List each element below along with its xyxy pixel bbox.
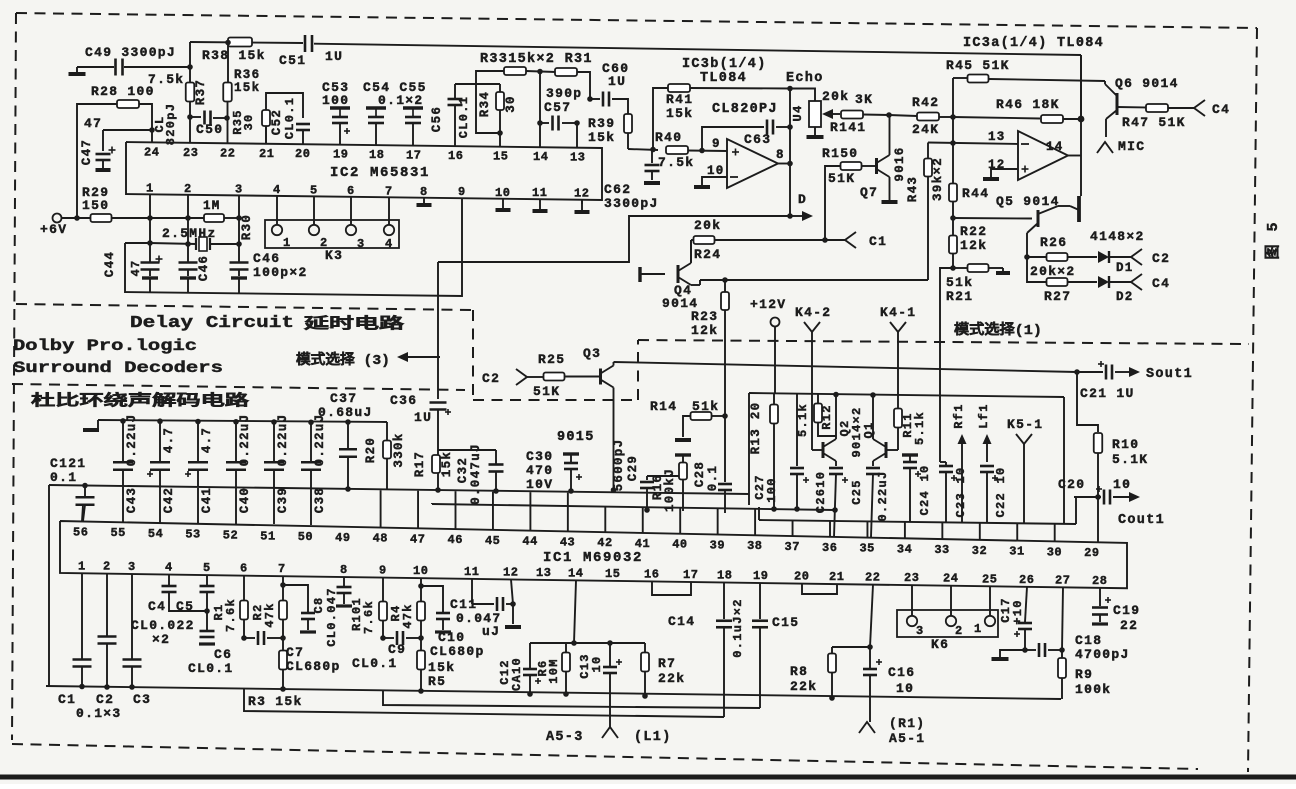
resistor R7 xyxy=(641,643,649,699)
label R23 12k xyxy=(691,309,718,338)
wire top rail R38-C51 segment xyxy=(190,42,303,43)
svg-text:1: 1 xyxy=(283,236,292,250)
resistor R17 xyxy=(432,455,440,473)
resistor R9 xyxy=(1058,650,1066,699)
label R3 15k xyxy=(248,694,303,709)
label Q5 9014 xyxy=(996,194,1060,209)
svg-text:13: 13 xyxy=(988,130,1006,144)
svg-text:C25: C25 xyxy=(850,479,864,505)
svg-text:26: 26 xyxy=(1019,573,1034,587)
label 杜比环绕声解码电路 xyxy=(31,391,251,410)
label R44 xyxy=(962,186,989,201)
label C6 CL0.1 xyxy=(188,647,234,676)
label C44 rotated xyxy=(103,251,117,277)
svg-text:C22 10: C22 10 xyxy=(994,466,1008,517)
svg-text:22: 22 xyxy=(865,571,880,585)
svg-text:100: 100 xyxy=(322,93,349,108)
label +6V xyxy=(40,222,67,237)
wire C29-R16 loop xyxy=(647,475,683,477)
wire IC3a output xyxy=(1068,155,1081,157)
resistor R14 xyxy=(691,412,726,420)
connector Lf1 arrow xyxy=(983,434,992,462)
svg-text:IC1 M69032: IC1 M69032 xyxy=(543,550,643,566)
wire R36 top from rail xyxy=(225,40,231,83)
label C4 (top) xyxy=(1212,102,1230,117)
wire Q5 base row xyxy=(953,217,1032,220)
pot U4 ground xyxy=(807,127,824,137)
svg-text:MIC: MIC xyxy=(1118,139,1145,154)
title 延时电路 xyxy=(302,314,405,333)
svg-text:1U: 1U xyxy=(414,410,432,425)
label R1 rotated xyxy=(212,603,226,620)
svg-text:56: 56 xyxy=(73,525,88,539)
svg-text:12k: 12k xyxy=(691,323,718,338)
capacitor C60 xyxy=(603,92,609,107)
capacitor C15 xyxy=(752,583,768,708)
capacitor C55 xyxy=(403,108,423,146)
svg-text:16: 16 xyxy=(448,149,463,163)
capacitor C13 polar xyxy=(603,643,622,727)
label R20 rotated xyxy=(364,437,378,463)
svg-text:0.22uJ: 0.22uJ xyxy=(876,470,890,521)
wire R21 column to C23 xyxy=(940,461,946,463)
label C63 xyxy=(744,132,771,147)
svg-text:34: 34 xyxy=(897,542,912,556)
svg-text:0.22uJ: 0.22uJ xyxy=(238,414,252,467)
resistor R4 xyxy=(417,578,425,650)
label 0.1uJx2 rotated xyxy=(731,598,745,658)
svg-text:150: 150 xyxy=(82,198,109,213)
label C25 rotated xyxy=(850,479,864,505)
IC2 pin13 wire down xyxy=(581,200,583,204)
label Q1 rotated xyxy=(862,421,876,438)
label 47k rotated (R2) xyxy=(263,602,277,628)
wire Q3 collector rail xyxy=(614,362,1080,375)
svg-text:18: 18 xyxy=(717,569,732,583)
capacitor C56 xyxy=(448,84,463,146)
label 47 rotated (C44) xyxy=(129,259,143,276)
svg-text:10: 10 xyxy=(1113,477,1131,492)
diode D1 xyxy=(1068,251,1131,263)
IC2 pin12 ground xyxy=(575,200,590,212)
label CL 820pJ rotated xyxy=(153,103,178,146)
resistor R13 xyxy=(770,394,778,512)
label 9 pin xyxy=(712,137,721,151)
wire pin29 column xyxy=(1097,497,1099,542)
svg-text:15k: 15k xyxy=(588,130,615,145)
wire rail B xyxy=(49,485,749,494)
label 0.1x3 xyxy=(76,706,122,721)
wire IC3a feedback column xyxy=(1080,55,1082,196)
capacitor C12 polar xyxy=(523,643,541,697)
wire rail C xyxy=(432,504,834,510)
label 10 rotated (C13) xyxy=(590,655,604,672)
wire +12V column xyxy=(774,326,776,394)
label C21 1U xyxy=(1080,386,1135,401)
svg-text:TL084: TL084 xyxy=(700,71,747,86)
label R13 20 rotated xyxy=(749,402,763,455)
svg-text:C1: C1 xyxy=(869,234,887,249)
wire R150 left elbow xyxy=(825,166,840,240)
transistor Q3 xyxy=(583,346,614,388)
svg-text:R37: R37 xyxy=(194,79,208,105)
label 10M rotated xyxy=(547,658,561,684)
svg-text:2: 2 xyxy=(184,182,192,196)
wire pin14 node row xyxy=(530,640,645,646)
svg-text:27: 27 xyxy=(1055,573,1070,587)
connector K5-1 xyxy=(1007,417,1043,444)
wire rail D xyxy=(759,520,1076,524)
svg-text:5.1k: 5.1k xyxy=(913,411,927,445)
svg-text:C3: C3 xyxy=(133,692,151,707)
svg-text:C4: C4 xyxy=(1212,102,1230,117)
svg-text:1: 1 xyxy=(974,622,983,636)
label 0.22uJ rotated (C25) xyxy=(876,470,890,521)
svg-text:CL0.1: CL0.1 xyxy=(283,97,297,140)
capacitor C11 xyxy=(497,597,503,611)
wire Q1 base from R11 xyxy=(886,449,898,451)
svg-text:0.1: 0.1 xyxy=(50,470,77,485)
svg-text:3300pJ: 3300pJ xyxy=(604,196,659,211)
capacitor C14 xyxy=(716,582,732,717)
outer dashed border top xyxy=(16,13,1257,28)
label C20 10 xyxy=(1058,477,1131,492)
label 15k R5 xyxy=(428,660,455,689)
svg-text:47k: 47k xyxy=(263,602,277,628)
wire R42 to node xyxy=(939,114,956,120)
svg-text:10: 10 xyxy=(413,564,428,578)
svg-text:R20: R20 xyxy=(364,437,378,463)
label R9 100k xyxy=(1075,667,1111,697)
label CL0.1 rotated (C56) xyxy=(457,96,471,139)
resistor R22 xyxy=(949,218,957,271)
svg-text:R39: R39 xyxy=(588,116,615,131)
resistor R39 xyxy=(624,114,632,149)
svg-text:51k: 51k xyxy=(692,399,719,414)
label R46 18K xyxy=(996,97,1060,112)
label C17 rotated xyxy=(999,597,1013,623)
wire R33-R31 xyxy=(526,69,556,75)
svg-text:R34: R34 xyxy=(478,91,492,117)
svg-text:30: 30 xyxy=(242,113,256,130)
capacitor C37 xyxy=(339,419,357,492)
svg-text:1M: 1M xyxy=(203,199,221,213)
svg-text:11: 11 xyxy=(532,186,547,200)
svg-text:20k: 20k xyxy=(694,218,721,233)
wire C60 to R39 xyxy=(612,99,628,114)
wire echo column xyxy=(789,89,791,217)
label 2.5MHz xyxy=(162,226,217,241)
svg-text:36: 36 xyxy=(822,541,837,555)
capacitor C54 xyxy=(366,108,386,145)
label R42 xyxy=(912,95,939,110)
svg-text:R3 15k: R3 15k xyxy=(248,694,303,709)
label C14 xyxy=(668,614,695,629)
capacitor C25 polar xyxy=(866,468,880,537)
mode-select(1) dashed separator xyxy=(638,340,1249,344)
svg-text:100: 100 xyxy=(765,477,779,503)
op-amp output 8 xyxy=(776,148,793,166)
label R35 30 rotated xyxy=(231,109,256,135)
svg-text:24: 24 xyxy=(943,572,958,586)
svg-text:C40: C40 xyxy=(238,487,252,513)
label 0.1x2 xyxy=(378,93,424,108)
svg-text:29: 29 xyxy=(1084,546,1099,560)
label C47 rotated xyxy=(80,139,94,165)
capacitor C16 polar xyxy=(863,647,882,722)
label R150 xyxy=(822,146,858,161)
svg-text:CL0.022: CL0.022 xyxy=(131,618,195,633)
+12V terminal xyxy=(750,297,786,327)
label C8 rotated xyxy=(312,596,326,613)
svg-text:7.6k: 7.6k xyxy=(224,598,238,632)
svg-text:1: 1 xyxy=(78,559,86,573)
label C18 4700pJ xyxy=(1075,633,1130,662)
title Dolby Pro.logic xyxy=(13,337,197,355)
svg-text:23: 23 xyxy=(183,146,198,160)
svg-text:11: 11 xyxy=(464,565,479,579)
svg-text:C46: C46 xyxy=(197,255,211,281)
capacitor C27 polar xyxy=(790,394,809,512)
label R2 rotated xyxy=(251,603,265,620)
+6V terminal xyxy=(53,214,62,223)
label C49 3300pJ xyxy=(85,45,176,60)
resistor R25 xyxy=(544,373,565,381)
wire pin12 ground col xyxy=(505,579,521,627)
svg-text:C39: C39 xyxy=(276,487,290,513)
svg-text:20: 20 xyxy=(295,147,310,161)
svg-text:C18: C18 xyxy=(1075,633,1102,648)
label 10 pin xyxy=(707,164,725,178)
label R33 15kx2 R31 xyxy=(480,52,593,67)
capacitor C53 xyxy=(330,108,350,145)
svg-text:17: 17 xyxy=(683,568,698,582)
svg-text:9015: 9015 xyxy=(557,430,595,445)
resistor R101 xyxy=(379,578,387,641)
label Q7 xyxy=(860,185,878,200)
label 5.1k rotated (R12) xyxy=(796,403,810,437)
wire C60 row xyxy=(590,98,600,100)
svg-text:16: 16 xyxy=(644,567,659,581)
svg-text:R8: R8 xyxy=(790,664,808,679)
svg-text:R24: R24 xyxy=(694,247,721,262)
resistor R5 xyxy=(417,651,425,694)
label C28 rotated xyxy=(693,461,707,487)
wire Q5 collector bar xyxy=(1058,196,1079,222)
label CL0.047 rotated xyxy=(325,587,339,647)
wire C20 row xyxy=(1074,496,1101,498)
svg-text:C2: C2 xyxy=(1152,251,1170,266)
label D2 xyxy=(1116,290,1134,304)
svg-text:21: 21 xyxy=(259,147,274,161)
resistor R33 xyxy=(504,67,526,75)
svg-text:14: 14 xyxy=(533,150,548,164)
svg-text:C37: C37 xyxy=(330,391,357,406)
label IC3a (1/4) TL084 xyxy=(963,36,1104,51)
svg-text:C7: C7 xyxy=(286,645,304,660)
capacitors C43 C42 C41 C40 C39 C38 xyxy=(113,418,321,525)
svg-text:22: 22 xyxy=(220,146,235,160)
label C4 (diode row) xyxy=(1152,276,1170,291)
label C29 rotated xyxy=(626,455,640,481)
resistor R21 xyxy=(953,264,1003,272)
label 13 pin xyxy=(988,130,1006,144)
svg-text:10: 10 xyxy=(707,164,725,178)
svg-text:10: 10 xyxy=(896,681,914,696)
capacitor C22 polar xyxy=(980,466,998,523)
label 390p C57 xyxy=(544,86,582,115)
wire C50 right xyxy=(213,115,230,121)
wire C52 lower xyxy=(265,126,267,144)
svg-text:C44: C44 xyxy=(103,251,117,277)
wire C63 loop left xyxy=(702,127,764,151)
svg-text:IC2 M65831: IC2 M65831 xyxy=(330,165,430,181)
svg-text:6: 6 xyxy=(347,184,355,198)
svg-text:4: 4 xyxy=(165,561,173,575)
label R25 xyxy=(538,352,565,367)
resistor 1M xyxy=(204,214,224,222)
label R47 51K xyxy=(1122,115,1186,130)
wire C49 right to node xyxy=(124,64,193,70)
label CL0.022 x2 xyxy=(131,618,195,647)
label Echo xyxy=(786,71,824,86)
svg-text:0.047uJ: 0.047uJ xyxy=(469,443,483,505)
svg-text:CL820PJ: CL820PJ xyxy=(712,102,778,117)
svg-text:C5: C5 xyxy=(176,599,194,614)
svg-text:C24 10: C24 10 xyxy=(918,464,932,515)
label Q2 rotated xyxy=(838,419,852,436)
label C56 rotated xyxy=(430,106,444,132)
svg-text:C2: C2 xyxy=(96,692,114,707)
label 3K xyxy=(855,92,873,107)
svg-text:C50: C50 xyxy=(196,122,223,137)
svg-text:2: 2 xyxy=(103,560,111,574)
arrow Cout1 xyxy=(1113,492,1140,502)
resistor R10 xyxy=(1094,433,1103,500)
svg-text:24: 24 xyxy=(144,145,159,159)
svg-text:R3315k×2 R31: R3315k×2 R31 xyxy=(480,52,593,67)
label 20k x2 xyxy=(1030,264,1076,279)
resistor R43 xyxy=(924,143,932,281)
wire R24 to C1 xyxy=(825,239,845,241)
svg-text:0.1×2: 0.1×2 xyxy=(378,93,424,108)
wire Q4 emitter node xyxy=(691,280,700,285)
label 0.047uJ rotated xyxy=(469,443,483,505)
svg-text:3: 3 xyxy=(357,237,366,251)
wire K5-1 column xyxy=(1023,444,1025,524)
label 5600pJ rotated xyxy=(612,439,626,492)
svg-text:47: 47 xyxy=(84,116,102,131)
wire R150 to Q7 xyxy=(862,165,876,167)
wire pin1-rail link xyxy=(125,242,150,244)
svg-text:C42: C42 xyxy=(162,487,176,513)
svg-text:C2610: C2610 xyxy=(814,471,828,514)
transistor Q2 xyxy=(823,392,839,461)
svg-text:20k×2: 20k×2 xyxy=(1030,264,1076,279)
ground R21 xyxy=(996,268,1010,273)
svg-text:R17: R17 xyxy=(413,451,427,477)
capacitor C63 xyxy=(767,120,773,135)
svg-text:22k: 22k xyxy=(790,679,817,694)
wire 1M to pin3 xyxy=(224,215,242,221)
svg-text:33: 33 xyxy=(934,543,949,557)
svg-text:0.1×3: 0.1×3 xyxy=(76,706,122,721)
wire node down to pin13 row xyxy=(950,117,956,146)
svg-text:Q6 9014: Q6 9014 xyxy=(1115,76,1179,91)
label R141 xyxy=(830,120,866,135)
capacitor C10 xyxy=(421,586,451,632)
wire 3K to R42 node xyxy=(863,112,892,118)
svg-text:C1: C1 xyxy=(58,692,76,707)
svg-text:R28 100: R28 100 xyxy=(91,84,155,99)
svg-text:D1: D1 xyxy=(1116,261,1134,275)
K3 pin labels xyxy=(283,236,394,251)
wire R41 feedback left xyxy=(653,88,668,150)
connector K4-2 xyxy=(795,305,831,332)
svg-text:5: 5 xyxy=(310,183,318,197)
svg-text:C62: C62 xyxy=(604,182,631,197)
wire C36 column xyxy=(437,262,439,399)
label R8 22k xyxy=(790,664,817,694)
svg-text:R12: R12 xyxy=(820,404,834,430)
label R17 rotated xyxy=(413,451,427,477)
IC1 top pin numbers 56-29 xyxy=(73,525,1100,560)
svg-text:51K: 51K xyxy=(533,384,560,399)
svg-text:1U: 1U xyxy=(325,49,343,64)
svg-text:R42: R42 xyxy=(912,95,939,110)
IC1 bottom pin numbers 1-28 xyxy=(78,559,1107,588)
svg-text:Echo: Echo xyxy=(786,71,824,86)
wire rail1b R3 xyxy=(244,689,724,717)
svg-text:C15: C15 xyxy=(772,615,799,630)
wire C63 right xyxy=(776,124,793,130)
resistor R1 xyxy=(240,576,248,641)
Dolby box top dashed xyxy=(12,384,465,390)
svg-text:12: 12 xyxy=(503,565,518,579)
label K6 xyxy=(931,637,949,652)
svg-text:330k: 330k xyxy=(392,432,406,467)
resistor R47 xyxy=(1146,104,1168,112)
label C121 0.1 xyxy=(50,456,86,485)
label C36 1U xyxy=(390,393,432,425)
wire node to R46 row xyxy=(953,117,1040,119)
svg-text:21: 21 xyxy=(829,570,844,584)
wire rail D left elbow xyxy=(758,507,760,520)
wire pin14 stub xyxy=(539,123,541,147)
svg-text:47: 47 xyxy=(410,532,425,546)
capacitor C50 xyxy=(205,111,211,125)
capacitor C36 polar xyxy=(430,403,452,493)
svg-text:Dolby Pro.logic: Dolby Pro.logic xyxy=(13,337,197,355)
svg-text:5.1k: 5.1k xyxy=(796,403,810,437)
label 24K xyxy=(912,122,939,137)
label R16 rotated xyxy=(651,474,665,500)
label R39 15k xyxy=(588,116,615,145)
capacitor C62 xyxy=(644,150,660,183)
resistor R150 xyxy=(841,162,862,170)
svg-text:C43: C43 xyxy=(125,487,139,513)
svg-text:C23 10: C23 10 xyxy=(954,466,968,517)
svg-text:C4: C4 xyxy=(148,599,166,614)
svg-text:C8: C8 xyxy=(312,596,326,613)
wire pin22 stub xyxy=(227,118,229,143)
connector Rf1 arrow xyxy=(958,434,967,523)
svg-text:+12V: +12V xyxy=(750,297,786,312)
label 47 (C47) xyxy=(84,116,102,131)
capacitor C18 xyxy=(1025,643,1065,657)
label C32 rotated xyxy=(456,457,470,483)
svg-text:22k: 22k xyxy=(658,671,685,686)
